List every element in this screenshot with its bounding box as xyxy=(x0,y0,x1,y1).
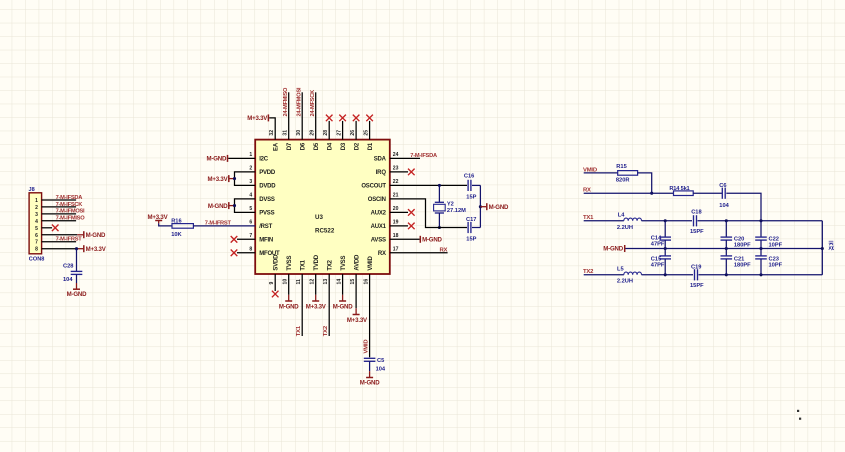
junction crystal top xyxy=(438,184,441,187)
svg-text:47PF: 47PF xyxy=(651,263,665,269)
svg-text:M-GND: M-GND xyxy=(86,232,106,239)
svg-text:R15: R15 xyxy=(616,164,626,170)
power port M+3.3V on U3 pin 15 xyxy=(355,308,357,314)
wire R16 to U3 pin6 /RST xyxy=(193,225,255,227)
wire antenna right bus xyxy=(821,221,823,275)
wire VMID to R15 xyxy=(584,172,618,174)
wire C21 to TX2 line xyxy=(725,259,727,275)
svg-text:SVDD: SVDD xyxy=(274,254,280,271)
svg-text:104: 104 xyxy=(376,366,386,372)
svg-text:28: 28 xyxy=(323,130,329,136)
svg-text:8: 8 xyxy=(249,247,252,253)
wire TX2 to L5 xyxy=(584,274,624,276)
no-connect X on U3 pin 7 xyxy=(231,236,238,243)
wire pin1 J8 to net 7-M-IFSDA xyxy=(42,199,77,201)
no-connect X on U3 pin 26 xyxy=(353,115,360,122)
svg-text:AUX2: AUX2 xyxy=(371,211,387,217)
svg-text:7: 7 xyxy=(249,233,252,239)
svg-text:7-M-IFRST: 7-M-IFRST xyxy=(56,237,83,243)
wire to power port pins 2-3 xyxy=(230,178,235,180)
svg-text:7-M-IFMOSI: 7-M-IFMOSI xyxy=(56,209,85,215)
svg-text:15PF: 15PF xyxy=(690,229,704,235)
svg-text:104: 104 xyxy=(719,203,729,209)
svg-text:D3: D3 xyxy=(341,142,347,150)
wire C23 to TX2 line xyxy=(760,259,762,275)
svg-text:C16: C16 xyxy=(464,174,474,180)
wire C20 to gnd line xyxy=(725,240,727,248)
U3 pin8 MFOUT stub no-connect xyxy=(237,252,255,254)
svg-text:32: 32 xyxy=(269,130,275,136)
wire U3 pin30 D6 net 24-MFMOSI xyxy=(301,92,303,139)
U3 pin7 MFIN stub no-connect xyxy=(237,238,255,240)
svg-text:M-GND: M-GND xyxy=(603,246,623,253)
svg-text:180PF: 180PF xyxy=(734,263,751,269)
svg-text:2.2UH: 2.2UH xyxy=(617,279,633,285)
junction on crystal bus xyxy=(479,205,482,208)
svg-text:820R: 820R xyxy=(616,177,630,183)
svg-text:7-M-IFSDA: 7-M-IFSDA xyxy=(410,153,437,159)
svg-text:VMID: VMID xyxy=(364,340,370,354)
svg-text:5: 5 xyxy=(35,226,38,232)
power port M-GND below C28 xyxy=(76,283,78,289)
junction gnd line C22 column xyxy=(759,247,762,250)
svg-text:Y2: Y2 xyxy=(447,201,454,207)
svg-text:C28: C28 xyxy=(63,263,73,269)
capacitor C5 xyxy=(364,357,376,359)
svg-text:19: 19 xyxy=(393,220,399,226)
svg-text:5: 5 xyxy=(249,206,252,212)
U3 pin9 SVDD stub no-connect xyxy=(274,274,276,291)
svg-text:6: 6 xyxy=(35,233,38,239)
capacitor C19 xyxy=(694,269,696,280)
capacitor C23 xyxy=(755,255,767,257)
wire pin7 J8 to net 7-M-IFRST xyxy=(42,241,77,243)
wire U3 pin32 EA to power xyxy=(269,118,275,140)
U3 pin19 AUX1 stub no-connect xyxy=(390,225,408,227)
U3 pin23 IRQ stub no-connect xyxy=(390,171,408,173)
svg-text:M-GND: M-GND xyxy=(489,204,509,211)
junction pins 2-3 bracket xyxy=(233,177,236,180)
antenna label tianxian (drawn strokes) xyxy=(829,241,834,250)
svg-text:2.2UH: 2.2UH xyxy=(617,225,633,231)
inductor L5 xyxy=(624,272,642,275)
svg-text:10PF: 10PF xyxy=(769,263,783,269)
svg-text:AUX1: AUX1 xyxy=(371,224,387,230)
svg-text:24-MFMOSI: 24-MFMOSI xyxy=(296,87,302,116)
svg-text:TVSS: TVSS xyxy=(287,256,293,271)
svg-text:M-GND: M-GND xyxy=(360,380,380,387)
wire junction down to crystal Y2 xyxy=(438,185,440,202)
wire crystal ground bus xyxy=(479,185,481,227)
crystal Y2 xyxy=(435,201,444,203)
op-amp U3 RC522 IC body xyxy=(255,140,390,274)
svg-text:L4: L4 xyxy=(618,213,625,219)
junction TX1 at C14 column xyxy=(664,219,667,222)
no-connect X on U3 pin 20 xyxy=(408,209,415,216)
no-connect X on U3 pin 27 xyxy=(339,115,346,122)
svg-text:TX1: TX1 xyxy=(296,325,302,336)
wire bracket U3 pins 2-3 PVDD DVDD xyxy=(235,172,256,186)
wire gnd line to C23 xyxy=(760,249,762,256)
power port M+3.3V on U3 pin 32 xyxy=(267,114,269,121)
junction TX1 at C22 column / C6 branch xyxy=(759,219,762,222)
svg-text:VMID: VMID xyxy=(368,256,374,271)
svg-text:D7: D7 xyxy=(287,142,293,150)
svg-text:C18: C18 xyxy=(691,209,701,215)
wire R15 down to RX line xyxy=(638,173,652,193)
svg-text:1: 1 xyxy=(35,198,38,204)
wire L5 to C19 xyxy=(642,274,694,276)
svg-text:4: 4 xyxy=(249,193,252,199)
svg-text:24-MFSCK: 24-MFSCK xyxy=(310,89,316,117)
svg-text:D6: D6 xyxy=(301,142,307,150)
svg-text:2: 2 xyxy=(35,205,38,211)
wire pin4 J8 to net 7-M-IFMISO xyxy=(42,220,77,222)
svg-text:SDA: SDA xyxy=(374,157,387,163)
svg-text:7-M-IFRST: 7-M-IFRST xyxy=(205,221,232,227)
wire C19 to antenna bus corner bottom xyxy=(699,274,823,276)
wire pin3 J8 to net 7-M-IFMOSI xyxy=(42,213,77,215)
svg-text:RX: RX xyxy=(378,251,386,257)
junction on J8 pin 8 wire xyxy=(75,247,78,250)
svg-text:M-GND: M-GND xyxy=(67,291,87,298)
svg-text:PVSS: PVSS xyxy=(259,211,274,217)
svg-text:30: 30 xyxy=(296,130,302,136)
svg-text:7: 7 xyxy=(35,240,38,246)
svg-text:M+3.3V: M+3.3V xyxy=(208,176,229,183)
svg-text:27: 27 xyxy=(337,130,343,136)
junction gnd line C20 column xyxy=(725,247,728,250)
capacitor C18 xyxy=(693,215,695,226)
wire pin5 J8 no-connect xyxy=(42,227,52,229)
svg-text:4: 4 xyxy=(35,219,38,225)
wire bracket U3 pins 4-5 DVSS PVSS xyxy=(235,199,256,213)
wire U3 pin15 AVDD to power xyxy=(355,274,357,308)
svg-text:6: 6 xyxy=(249,220,252,226)
power port M-GND on J8 pin 6 xyxy=(77,234,84,236)
svg-text:18: 18 xyxy=(393,233,399,239)
svg-text:DVSS: DVSS xyxy=(259,197,275,203)
wire crystal to OSCIN line xyxy=(438,213,440,228)
svg-text:D5: D5 xyxy=(314,142,320,150)
wire TX1 to L4 xyxy=(584,220,624,222)
svg-text:23: 23 xyxy=(393,166,399,172)
no-connect X on U3 pin 19 xyxy=(408,223,415,230)
U3 pin20 AUX2 stub no-connect xyxy=(390,211,408,213)
wire U3 pin1 IIC to ground port xyxy=(228,157,255,159)
svg-text:24-MFMISO: 24-MFMISO xyxy=(283,87,289,117)
svg-text:TX1: TX1 xyxy=(301,259,307,270)
svg-text:15P: 15P xyxy=(466,195,476,201)
U3 pin28 stub no-connect xyxy=(328,121,330,140)
wire U3 pin24 SDA xyxy=(390,157,420,159)
svg-text:7-M-IFSDA: 7-M-IFSDA xyxy=(56,195,83,201)
wire TX1 line down to C14 xyxy=(664,221,666,237)
resistor R14 xyxy=(674,191,694,196)
svg-text:L5: L5 xyxy=(617,267,624,273)
svg-text:C17: C17 xyxy=(466,217,476,223)
svg-text:7-M-IFMISO: 7-M-IFMISO xyxy=(56,216,86,222)
svg-text:22: 22 xyxy=(393,179,399,185)
svg-text:C19: C19 xyxy=(691,264,701,270)
wire C28 to ground xyxy=(76,274,78,283)
junction TX2 at C23 column xyxy=(759,273,762,276)
svg-text:R16: R16 xyxy=(171,219,181,225)
wire C14 to gnd line xyxy=(664,240,666,248)
svg-text:10PF: 10PF xyxy=(769,242,783,248)
capacitor C14 xyxy=(659,236,671,238)
svg-text:M+3.3V: M+3.3V xyxy=(306,304,327,311)
svg-text:M+3.3V: M+3.3V xyxy=(347,317,368,324)
svg-text:U3: U3 xyxy=(315,214,323,221)
svg-text:TX1: TX1 xyxy=(583,215,594,221)
stray dot 1 xyxy=(797,410,799,412)
svg-text:20: 20 xyxy=(393,206,399,212)
junction gnd line on antenna bus xyxy=(821,247,824,250)
power port M-GND on U3 pin 14 xyxy=(342,295,344,301)
svg-text:25: 25 xyxy=(364,130,370,136)
no-connect X on U3 pin 25 xyxy=(366,115,373,122)
svg-text:26: 26 xyxy=(350,130,356,136)
svg-text:M-GND: M-GND xyxy=(207,156,227,163)
wire TX1 line down to C20 xyxy=(725,221,727,237)
svg-text:29: 29 xyxy=(310,130,316,136)
wire U3 pin16 VMID to C5 xyxy=(369,274,371,357)
wire U3 pin21 OSCIN to C17 xyxy=(390,199,467,228)
capacitor C20 xyxy=(721,236,733,238)
capacitor C22 xyxy=(755,236,767,238)
inductor L4 xyxy=(624,218,642,221)
svg-text:IRQ: IRQ xyxy=(376,170,387,176)
svg-text:15: 15 xyxy=(350,279,356,285)
svg-text:CON8: CON8 xyxy=(29,256,45,262)
wire U3 pin18 AVSS to ground xyxy=(390,238,420,240)
capacitor C28 xyxy=(71,270,83,272)
junction TX2 at C21 column xyxy=(725,273,728,276)
wire junction to capacitor C28 xyxy=(76,249,78,272)
svg-text:24: 24 xyxy=(393,152,399,158)
wire pin6 J8 to ground xyxy=(42,234,78,236)
U3 pin26 stub no-connect xyxy=(355,121,357,140)
power port M+3.3V on U3 pin 12 xyxy=(315,295,317,301)
svg-text:47PF: 47PF xyxy=(651,242,665,248)
resistor R15 xyxy=(618,171,638,176)
capacitor C6 xyxy=(721,188,723,199)
svg-text:2: 2 xyxy=(249,166,252,172)
svg-text:AVDD: AVDD xyxy=(354,254,360,271)
connector J8 body xyxy=(29,193,41,254)
power port M+3.3V on U3 pins 2-3 xyxy=(228,175,230,182)
svg-text:11: 11 xyxy=(296,279,302,285)
wire U3 pin11 TX1 xyxy=(301,274,303,336)
wire antenna mid ground line xyxy=(625,248,822,250)
svg-text:3: 3 xyxy=(35,212,38,218)
capacitor C17 xyxy=(467,222,469,233)
capacitor C16 xyxy=(467,180,469,191)
svg-text:MFIN: MFIN xyxy=(259,238,273,244)
svg-text:31: 31 xyxy=(283,130,289,136)
svg-text:TX2: TX2 xyxy=(328,259,334,270)
svg-text:RC522: RC522 xyxy=(315,227,335,234)
svg-text:16: 16 xyxy=(364,279,370,285)
wire U3 pin31 D7 net 24-MFMISO xyxy=(288,92,290,139)
stray dot 2 xyxy=(799,418,801,420)
wire gnd line to C15 xyxy=(664,249,666,256)
wire power to resistor R16 xyxy=(159,223,172,226)
svg-text:13: 13 xyxy=(323,279,329,285)
svg-text:I2C: I2C xyxy=(259,157,269,163)
svg-text:AVSS: AVSS xyxy=(371,238,386,244)
svg-text:M-GND: M-GND xyxy=(279,304,299,311)
power port M-GND on U3 pins 4-5 xyxy=(228,202,230,209)
svg-text:12: 12 xyxy=(310,279,316,285)
svg-text:M+3.3V: M+3.3V xyxy=(247,115,268,122)
svg-text:TX2: TX2 xyxy=(323,325,329,336)
no-connect X on U3 pin 28 xyxy=(326,115,333,122)
svg-text:M-GND: M-GND xyxy=(333,304,353,311)
svg-text:TVDD: TVDD xyxy=(314,254,320,270)
wire L4 to C18 xyxy=(642,220,693,222)
svg-text:21: 21 xyxy=(393,193,399,199)
svg-text:C5: C5 xyxy=(377,358,384,364)
U3 pin25 stub no-connect xyxy=(369,121,371,140)
junction pins 4-5 bracket xyxy=(233,204,236,207)
svg-text:M+3.3V: M+3.3V xyxy=(86,246,107,253)
wire U3 pin29 D5 net 24-MFSCK xyxy=(315,92,317,139)
svg-text:EA: EA xyxy=(274,142,280,151)
wire C5 to ground xyxy=(369,361,371,371)
svg-text:10: 10 xyxy=(283,279,289,285)
svg-text:M-GND: M-GND xyxy=(208,203,228,210)
svg-text:180PF: 180PF xyxy=(734,242,751,248)
svg-text:PVDD: PVDD xyxy=(259,170,276,176)
wire pin8 J8 to power xyxy=(42,248,78,250)
wire RX to R14 xyxy=(584,192,674,194)
power port M+3.3V on J8 pin 8 xyxy=(77,248,84,250)
svg-text:OSCOUT: OSCOUT xyxy=(361,184,386,190)
power port M-GND on U3 pin 1 xyxy=(227,155,229,162)
svg-text:/RST: /RST xyxy=(259,224,272,230)
junction R15 branch on RX line xyxy=(650,192,653,195)
wire gnd line to C21 xyxy=(725,249,727,256)
power port bar M-GND mid line xyxy=(624,245,626,252)
svg-text:M-GND: M-GND xyxy=(422,237,442,244)
wire R14 to C6 xyxy=(693,192,722,194)
wire C22 to gnd line xyxy=(760,240,762,248)
junction TX1 at C20 column xyxy=(725,219,728,222)
wire U3 pin14 TVSS to ground xyxy=(342,274,344,295)
wire C6 to TX1 line junction xyxy=(726,193,761,221)
junction TX2 at C15 column xyxy=(664,273,667,276)
svg-text:DVDD: DVDD xyxy=(259,184,276,190)
no-connect X on U3 pin 8 xyxy=(231,250,238,257)
svg-text:TX2: TX2 xyxy=(583,269,594,275)
svg-text:3: 3 xyxy=(249,179,252,185)
svg-text:8: 8 xyxy=(35,247,38,253)
svg-text:15P: 15P xyxy=(466,237,476,243)
junction crystal bottom xyxy=(438,226,441,229)
svg-text:17: 17 xyxy=(393,247,399,253)
svg-text:1: 1 xyxy=(249,152,252,158)
svg-text:OSCIN: OSCIN xyxy=(368,197,386,203)
no-connect X on U3 pin 23 xyxy=(408,169,415,176)
wire U3 pin13 TX2 xyxy=(328,274,330,336)
svg-text:10K: 10K xyxy=(171,232,182,238)
resistor R16 xyxy=(172,224,193,229)
wire TX1 line down to C22 xyxy=(760,221,762,237)
svg-text:27.12M: 27.12M xyxy=(447,208,466,214)
U3 pin27 stub no-connect xyxy=(342,121,344,140)
wire U3 pin17 RX xyxy=(390,252,448,254)
power port M-GND on U3 pin 18 xyxy=(419,236,421,243)
svg-text:104: 104 xyxy=(63,277,73,283)
wire C15 to TX2 line xyxy=(664,259,666,275)
svg-text:D2: D2 xyxy=(354,142,360,150)
svg-text:D4: D4 xyxy=(328,142,334,150)
no-connect X on J8 pin 5 xyxy=(52,225,59,232)
wire C18 to antenna bus corner xyxy=(698,220,823,222)
capacitor C15 xyxy=(659,255,671,257)
svg-text:9: 9 xyxy=(269,282,275,285)
svg-text:7-M-IFSCK: 7-M-IFSCK xyxy=(56,202,84,208)
svg-text:R14 5k1: R14 5k1 xyxy=(669,186,689,192)
svg-text:14: 14 xyxy=(337,279,343,285)
wire U3 pin10 TVSS to ground xyxy=(288,274,290,295)
wire C17 to bus xyxy=(472,227,480,229)
svg-text:C6: C6 xyxy=(719,183,726,189)
junction gnd line C14 column xyxy=(664,247,667,250)
wire C16 to bus xyxy=(472,184,480,186)
power port M-GND on crystal bus xyxy=(480,206,486,208)
svg-text:RX: RX xyxy=(440,247,448,253)
svg-text:15PF: 15PF xyxy=(690,283,704,289)
capacitor C21 xyxy=(721,255,733,257)
wire U3 pin22 OSCOUT to C16 xyxy=(390,184,467,186)
svg-text:D1: D1 xyxy=(368,142,374,150)
no-connect X on U3 pin 9 xyxy=(272,291,279,298)
wire U3 pin12 TVDD to power xyxy=(315,274,317,295)
wire pin2 J8 to net 7-M-IFSCK xyxy=(42,206,77,208)
power port M-GND on U3 pin 10 xyxy=(288,295,290,301)
wire to power port pins 4-5 xyxy=(230,205,235,207)
svg-text:TVSS: TVSS xyxy=(341,256,347,271)
power port M-GND below C5 xyxy=(369,371,371,377)
